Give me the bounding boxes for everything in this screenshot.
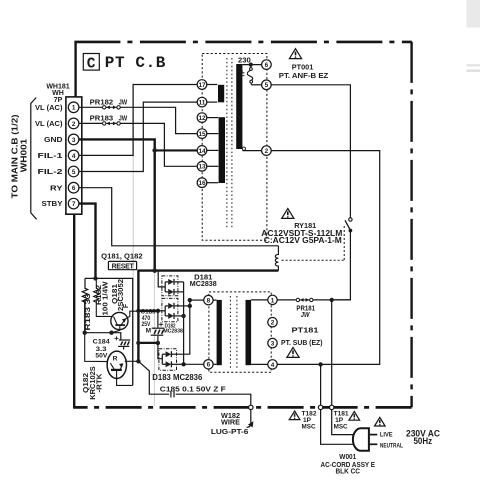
relay mechanical link dashed [282, 259, 345, 261]
reset rail [85, 278, 133, 385]
svg-text:50Hz: 50Hz [414, 436, 433, 446]
diode D181b [168, 289, 174, 295]
plug pin live [370, 434, 377, 436]
svg-text:C185 0.1 50V Z F: C185 0.1 50V Z F [160, 385, 226, 394]
svg-text:TF: TF [240, 70, 247, 78]
svg-text:FIL-1: FIL-1 [38, 151, 63, 160]
wire C183 bottom to D183 [158, 343, 162, 359]
wire PR181 to live node [313, 299, 350, 301]
page artifact: grey lines [467, 64, 480, 66]
PT001 bottom lead to pin 2 [242, 150, 261, 152]
svg-text:MSC: MSC [334, 424, 348, 431]
resistor R183 [82, 278, 87, 332]
PT181 pins 8,6 [204, 295, 213, 369]
diode D181a [168, 279, 174, 285]
svg-text:4: 4 [271, 362, 275, 369]
thick link to C183 [138, 310, 158, 312]
svg-text:2: 2 [265, 148, 269, 155]
wire GND pin3 to PT001 pin14 and reset rail [79, 139, 155, 270]
page artifact: grey corner block [467, 0, 480, 28]
svg-text:2: 2 [72, 121, 76, 128]
capacitor C184 plus [114, 336, 118, 340]
wire R183 node to Q182 base [85, 333, 110, 362]
transformer PT181 outline [209, 292, 271, 372]
jumper PR183 [79, 122, 103, 124]
diode box D183 [159, 349, 177, 371]
svg-text:MC2838: MC2838 [163, 329, 183, 335]
PT001 winding bar upper-left [218, 85, 224, 103]
frame: bottom border (dash-dot) [74, 406, 411, 409]
cathode bus V1 [183, 282, 185, 364]
svg-text:JW: JW [119, 114, 128, 123]
thermal fuse squiggle [250, 65, 252, 68]
wire Q182 emitter [117, 370, 133, 386]
junction thermal fuse tap [249, 63, 253, 67]
wire Q181 emitter [112, 326, 120, 333]
page artifact: scan ghost vertical lines [132, 88, 134, 384]
junction neutral tap [318, 362, 322, 366]
terminal W182 at border [249, 405, 253, 409]
junction C183 top [136, 309, 140, 313]
svg-text:6: 6 [265, 62, 269, 69]
warning triangle T182 [289, 411, 300, 420]
svg-text:230: 230 [238, 56, 251, 65]
diode D181d [168, 313, 174, 319]
svg-text:Q181, Q182: Q181, Q182 [101, 252, 142, 261]
svg-text:GND: GND [44, 135, 63, 144]
svg-text:5: 5 [265, 82, 269, 89]
PT181 pin leads [213, 300, 268, 365]
wire C185 to lug [176, 394, 251, 405]
svg-text:6: 6 [207, 362, 211, 369]
relay contact fixed terminal [349, 218, 352, 221]
svg-text:17: 17 [198, 82, 206, 89]
svg-text:1: 1 [72, 105, 76, 112]
svg-text:F: F [123, 303, 130, 308]
lug symbol [247, 422, 253, 427]
PT001 pins 17,11,12,15,14,13,16 [197, 80, 207, 188]
svg-text:RESET: RESET [112, 263, 135, 270]
junction R183 bottom [83, 331, 87, 335]
junction GND rail [152, 268, 157, 273]
PT001 winding bar lower-left [219, 117, 225, 183]
PT181 core lines [229, 296, 231, 369]
capacitor C183 plus [159, 322, 163, 326]
svg-text:R: R [113, 355, 118, 362]
svg-text:3: 3 [271, 341, 275, 348]
wire V2 to PT181 pin8 [190, 299, 204, 301]
svg-text:BLK CC: BLK CC [336, 467, 361, 476]
wire FIL-1 pin4 to PT001 pin17 [79, 85, 207, 156]
svg-text:PR183: PR183 [90, 114, 113, 123]
svg-text:2: 2 [271, 320, 275, 327]
svg-text:M: M [146, 328, 151, 335]
wire relay contact down to live node [332, 231, 351, 300]
connector WH181 body [66, 97, 82, 214]
junction collector rail [136, 359, 140, 363]
diode box D181 upper [162, 276, 178, 296]
diode D183b [166, 361, 172, 367]
junction C183 bottom right [156, 341, 160, 345]
relay contact blade [345, 220, 351, 230]
thick rail GND horizontal [138, 269, 278, 271]
junction GND/pin14 [152, 148, 157, 153]
D181 upper anode bracket [164, 282, 166, 292]
transformer PT001 outline [202, 54, 267, 241]
svg-text:MSC: MSC [302, 424, 316, 431]
svg-text:VL (AC): VL (AC) [35, 103, 63, 112]
svg-text:PT181: PT181 [292, 325, 320, 334]
svg-text:15: 15 [198, 131, 206, 138]
terminal T182 at border [318, 405, 322, 409]
warning triangle RY181 [282, 209, 294, 219]
svg-text:D183 MC2836: D183 MC2836 [152, 373, 203, 382]
title box C [83, 54, 99, 71]
svg-text:C184: C184 [93, 339, 110, 346]
warning triangle T181 [349, 412, 360, 421]
junction live node [330, 298, 334, 302]
wire STBY pin7 down to reset rail [79, 204, 96, 279]
svg-text:C: C [87, 57, 96, 73]
wire pin2 to PT001 pin13 [121, 123, 207, 166]
wire neutral down to plug [320, 364, 322, 405]
junction C183 bottom left [136, 341, 140, 345]
diode box D181 lower [162, 298, 178, 321]
svg-text:PT. ANF-B EZ: PT. ANF-B EZ [279, 71, 329, 80]
capacitor C184 [119, 339, 130, 341]
svg-text:13: 13 [198, 164, 206, 171]
capacitor C185 [170, 391, 172, 397]
svg-text:WIRE: WIRE [221, 418, 240, 427]
connector pins 1-7 [68, 102, 79, 209]
svg-text:PT. SUB (EZ): PT. SUB (EZ) [281, 338, 323, 347]
warning triangle PT181 [287, 348, 299, 358]
PT001 winding bar right [236, 64, 242, 149]
svg-text:FIL-2: FIL-2 [38, 167, 63, 176]
PT001 pins 6,5,2 [262, 60, 272, 156]
PT001 pin5 lead [251, 84, 261, 86]
frame: top border (dash-dot) [74, 41, 411, 44]
D181 lower anode bracket [164, 306, 166, 316]
svg-text:STBY: STBY [42, 199, 63, 208]
svg-text:12: 12 [198, 115, 206, 122]
svg-text:PT C.B: PT C.B [105, 54, 166, 72]
frame: left border solid lower [73, 214, 75, 409]
transistor Q181 [111, 312, 128, 329]
PT181 winding bar left [217, 300, 222, 365]
svg-text:JW: JW [301, 312, 311, 319]
junction STBY on reset rail [93, 276, 97, 280]
svg-text:PR182: PR182 [90, 98, 113, 107]
svg-text:14: 14 [198, 148, 206, 155]
plug pin neutral [370, 443, 377, 445]
wire pin14 branch [155, 149, 207, 151]
frame: right border (dash-dot) [410, 42, 412, 408]
svg-text:VL (AC): VL (AC) [35, 119, 63, 128]
wire PT001 pin2 to neutral row [271, 151, 380, 365]
PT001 top lead to pin 6 [242, 64, 261, 66]
junction C183 lead top [156, 309, 160, 313]
svg-text:4: 4 [72, 153, 76, 160]
svg-text:8: 8 [207, 298, 211, 305]
thick rail C183 vertical [137, 270, 139, 362]
resistor R182 [94, 278, 114, 316]
transistor Q182 [107, 351, 126, 378]
svg-text:5: 5 [72, 169, 76, 176]
svg-text:16: 16 [198, 180, 206, 187]
wire to lug [250, 410, 252, 423]
junction V2 top [188, 298, 192, 302]
wire pin1 to PT001 pin15 [121, 107, 207, 133]
warning triangle W001 [375, 417, 386, 426]
svg-text:WH001: WH001 [19, 138, 29, 172]
relay coil RY181 [275, 246, 278, 271]
relay outline dashed [343, 226, 345, 260]
junction V1 d4 [181, 314, 185, 318]
wire PT001 pin5 to relay contact [271, 85, 350, 218]
svg-text:11: 11 [199, 100, 206, 107]
frame: left border solid upper [74, 42, 76, 97]
bracket to main c.b [31, 98, 37, 220]
svg-text:1: 1 [271, 297, 275, 304]
terminal T181 at border [330, 405, 334, 409]
PT001 left pin leads [207, 85, 219, 183]
wire FIL-2 pin5 to PT001 pin11 [79, 102, 207, 171]
wire D183 to PT181 pin6 [184, 363, 204, 365]
svg-text:6: 6 [72, 185, 76, 192]
wire GND rail to D181 upper [158, 271, 165, 287]
svg-text:JW: JW [119, 98, 128, 107]
svg-text:RY: RY [50, 183, 63, 192]
connector pin labels [35, 103, 63, 208]
emitter rail [85, 299, 121, 339]
capacitor C183 [157, 311, 159, 328]
PT181 pins 1,2,3,4 [268, 295, 277, 369]
svg-text:-RTK: -RTK [97, 374, 104, 393]
junction emitter node [109, 331, 113, 335]
wire C183 node to D181 lower [158, 310, 165, 312]
wire PT181 pin1 to PR181 [277, 299, 296, 301]
jumper PR181 [296, 298, 299, 301]
svg-text:MC2838: MC2838 [190, 279, 217, 288]
junction V2 d3 [188, 304, 192, 308]
svg-text:100 1/4W: 100 1/4W [102, 281, 109, 315]
svg-text:3: 3 [72, 137, 76, 144]
wire Q182 collector to rail [125, 360, 139, 362]
wire live down to plug [331, 300, 333, 405]
wire rail to C185 [138, 361, 169, 394]
diode D181c [168, 303, 174, 309]
svg-text:LUG-PT-6: LUG-PT-6 [211, 427, 249, 436]
svg-text:LIVE: LIVE [380, 432, 393, 439]
diode D183a [166, 351, 172, 357]
winding end circle [242, 147, 245, 150]
svg-text:R183 33: R183 33 [85, 293, 92, 330]
warning triangle PT001 [289, 49, 301, 59]
svg-text:50V: 50V [95, 352, 108, 359]
jumper PR182 [79, 106, 103, 108]
junction V1 pin6 line [181, 362, 185, 366]
svg-text:7: 7 [72, 201, 76, 208]
svg-text:C:AC12V G5PA-1-M: C:AC12V G5PA-1-M [264, 236, 342, 245]
relay contact moving terminal junction [349, 229, 353, 233]
thick link C183 bottom [138, 342, 158, 344]
D183 anode bracket [161, 354, 163, 364]
AC plug W001 [353, 428, 369, 451]
wire RY pin6 to relay coil [79, 188, 279, 246]
PT181 winding bar right [246, 300, 252, 365]
PT001 core lines [226, 58, 228, 229]
cathode bus V2 [177, 300, 190, 354]
RESET box [108, 261, 136, 269]
svg-text:NEUTRAL: NEUTRAL [380, 443, 403, 450]
